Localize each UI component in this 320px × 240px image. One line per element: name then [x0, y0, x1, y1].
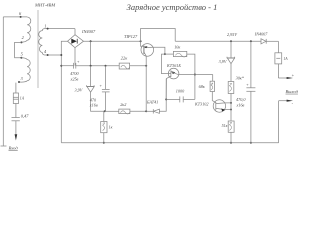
svg-text:2,95V: 2,95V [227, 32, 237, 38]
wire TIP127 collector column [145, 56, 147, 111]
svg-text:5: 5 [21, 51, 24, 56]
node 10k left [164, 53, 166, 55]
svg-text:2к2: 2к2 [120, 102, 126, 107]
node 22k/collector [145, 65, 147, 67]
primary winding lower (pins 5-3) [19, 58, 30, 82]
node cap1000 row [165, 98, 167, 100]
wire pin3 to fuse [15, 83, 17, 93]
capacitor C2 470x16v [105, 66, 107, 90]
wire pin1 down to bridge [74, 29, 76, 35]
node filter row left [60, 65, 62, 67]
svg-text:+: + [99, 83, 102, 88]
filter row left segment [61, 65, 73, 67]
node rail/cap column [90, 40, 92, 42]
node 4-way [104, 110, 106, 112]
resistor R5 68к [212, 75, 214, 82]
wire collector to emitter column [230, 103, 232, 110]
capacitor C4 470,0 x16v [250, 40, 252, 42]
wire КТ361Б emitter row [179, 74, 213, 76]
wire fuse to capacitor [15, 104, 17, 118]
node pin 2 [20, 41, 22, 43]
svg-text:КТ361Б: КТ361Б [166, 63, 181, 68]
TIP127 collector [144, 52, 146, 56]
svg-text:4700: 4700 [70, 71, 79, 76]
svg-text:+: + [246, 82, 249, 87]
node rail cap470 [250, 142, 252, 144]
diode VD5 IN4007 output [261, 39, 266, 44]
capacitor C1 4700x25v [73, 63, 75, 69]
svg-text:68к: 68к [199, 84, 205, 89]
svg-text:51к: 51к [222, 123, 228, 128]
svg-text:Вход: Вход [9, 145, 19, 150]
wire pin1 stub [45, 28, 76, 30]
КТ361Б emitter arrow [171, 71, 175, 74]
resistor R7 51 [230, 110, 232, 122]
svg-text:+: + [77, 59, 80, 64]
svg-text:3: 3 [21, 76, 24, 81]
svg-text:х25в: х25в [70, 76, 79, 81]
svg-text:6: 6 [19, 11, 22, 16]
svg-text:0,47: 0,47 [21, 113, 29, 119]
input terminal tick [1, 145, 7, 147]
svg-text:1А: 1А [283, 57, 288, 61]
capacitor C3 1000 [166, 98, 180, 100]
node pin 5 [20, 57, 22, 59]
svg-text:1: 1 [44, 24, 46, 29]
output plus terminal [278, 77, 287, 79]
node pin 3 [18, 81, 20, 83]
svg-text:1А: 1А [20, 96, 25, 100]
svg-text:х16в: х16в [89, 102, 98, 107]
resistor R1 22к [119, 63, 129, 69]
resistor R2 1к [103, 111, 105, 121]
svg-text:БАТ41: БАТ41 [146, 100, 158, 105]
wire pin6 top [3, 16, 27, 18]
node pin 4 [47, 54, 49, 56]
node pin 1 [47, 28, 49, 30]
КТ361Б collector [166, 76, 171, 99]
svg-text:10к: 10к [174, 45, 180, 50]
wire minus down right column [278, 101, 280, 143]
node cap470 column [105, 65, 107, 67]
svg-text:3,9V: 3,9V [75, 88, 83, 94]
input arrow terminal [15, 134, 18, 140]
diode VD3 БАТ41 [146, 110, 153, 112]
wire input left vertical [2, 17, 4, 146]
КТ3102 collector [216, 102, 231, 105]
svg-text:4: 4 [44, 49, 47, 54]
fuse FU1 [13, 93, 18, 104]
node collector/2k2 [145, 110, 147, 112]
node base TIP127 [140, 40, 142, 42]
wire pin4 stub [45, 54, 62, 56]
wire capacitor to arrow [15, 121, 17, 135]
svg-text:КТ3102: КТ3102 [194, 102, 209, 107]
rail 2 top right [175, 40, 261, 42]
svg-text:1000: 1000 [176, 89, 185, 94]
filter row right segment [130, 65, 147, 67]
transformer core [37, 10, 39, 88]
node rail 1k [103, 142, 105, 144]
wire rail down to filter row [90, 41, 92, 65]
filter row middle segment [76, 65, 119, 67]
fuse/resistor output 1А [277, 41, 279, 53]
row 2k2 segment [105, 110, 119, 112]
svg-text:-: - [292, 101, 294, 106]
svg-text:х16в: х16в [236, 102, 245, 107]
resistor R3 2к2 [119, 109, 130, 114]
wire emitter row [153, 47, 165, 54]
wire bridge right vertex rail [84, 40, 141, 42]
node 68k row [194, 74, 196, 76]
resistor R4 10к [165, 53, 174, 55]
wire TIP127 base top link [141, 29, 176, 42]
svg-text:ТIР127: ТIР127 [124, 34, 138, 39]
node rail 51 [230, 142, 232, 144]
node zener column [90, 65, 92, 67]
svg-text:+: + [291, 72, 294, 77]
zener VD2 3,9V [90, 66, 92, 87]
node emitter corner [230, 109, 232, 111]
wire jumper pins 2-5 [15, 42, 22, 57]
svg-text:30к*: 30к* [236, 75, 245, 80]
node pin4 junction [60, 54, 62, 56]
TIP127 emitter [144, 46, 153, 48]
bridge diode arrow [71, 39, 77, 44]
bottom rail [61, 142, 278, 144]
wire zener down to node row [91, 92, 105, 111]
bridge rectifier VD1 IN4007 [68, 35, 84, 48]
svg-text:IN4007: IN4007 [254, 32, 268, 37]
svg-text:3,9V: 3,9V [219, 59, 227, 65]
node collector 30k [230, 102, 232, 104]
wire bridge left vertex to left column [61, 41, 67, 142]
КТ3102 emitter [216, 108, 231, 109]
capacitor C 0,47 [12, 117, 20, 119]
svg-text:22к: 22к [121, 56, 128, 61]
secondary winding (pins 1-4) [39, 29, 45, 55]
zener VD4 3,9V right [230, 40, 232, 42]
svg-text:МИТ-4ВМ: МИТ-4ВМ [34, 3, 56, 8]
wire bridge bottom vertex down [74, 48, 76, 66]
node pin 6 [20, 16, 22, 18]
output minus terminal [279, 100, 287, 102]
primary winding upper (pins 6-2) [21, 17, 30, 42]
svg-text:1к: 1к [109, 124, 113, 129]
svg-text:Зарядное устройство - 1: Зарядное устройство - 1 [127, 2, 218, 12]
svg-text:IN4007: IN4007 [81, 29, 96, 34]
resistor R6 30к* [228, 82, 234, 94]
svg-text:Выход: Выход [286, 89, 299, 94]
svg-text:2: 2 [22, 35, 25, 40]
